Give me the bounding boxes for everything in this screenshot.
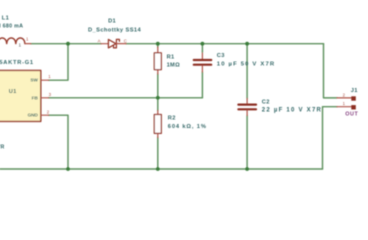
junction bottom rail / GND	[66, 167, 70, 171]
junction bottom rail / R2	[156, 167, 160, 171]
wire R1 top stub	[157, 44, 159, 47]
svg-text:L1: L1	[2, 16, 9, 22]
U1 pin name FB	[32, 95, 39, 100]
U1 reference label	[9, 89, 17, 95]
J1 pin 2 number	[343, 92, 346, 97]
inductor L1	[0, 38, 31, 44]
U1 pin 2 GND	[41, 114, 49, 116]
U1 pin name SW	[30, 78, 38, 83]
J1 pin 1 number	[343, 101, 346, 106]
junction top rail / C3	[201, 42, 205, 46]
wire R1 bottom stub	[157, 74, 159, 98]
svg-text:U1: U1	[9, 89, 17, 95]
U1 pin 1 SW	[41, 79, 49, 81]
R1 reference label	[167, 55, 175, 61]
svg-text:22 µF 10 V X7R: 22 µF 10 V X7R	[262, 108, 322, 114]
wire C2 riser	[246, 44, 248, 99]
svg-text:4.7 µH 680 mA: 4.7 µH 680 mA	[0, 23, 23, 29]
J1 reference label	[351, 88, 358, 94]
wire top rail left (L1 to D1 anode)	[31, 43, 101, 45]
wire J1 pin1 drop	[323, 107, 338, 169]
L1 pin number 1 (dark)	[19, 42, 22, 47]
wire GND riser	[49, 115, 68, 169]
D1 pin name A	[98, 38, 101, 43]
svg-text:A: A	[98, 38, 101, 43]
svg-text:OUT: OUT	[345, 112, 358, 118]
svg-text:R2: R2	[168, 115, 176, 121]
svg-text:FB: FB	[32, 95, 39, 100]
svg-text:X7R: X7R	[0, 144, 5, 150]
U1 value label (part number)	[0, 60, 34, 66]
wire top rail right (D1 cathode to J1 corner)	[126, 43, 324, 45]
D1 pin name C	[124, 38, 127, 43]
svg-text:604 kΩ, 1%: 604 kΩ, 1%	[168, 124, 207, 130]
wire C3 bottom drop	[201, 72, 203, 98]
wire J1 pin2 riser	[324, 44, 338, 98]
D1 reference label	[108, 19, 116, 25]
svg-text:5AKTR-G1: 5AKTR-G1	[0, 60, 34, 66]
L1 pin number 1 (red)	[26, 36, 29, 41]
resistor R1	[154, 47, 161, 74]
svg-text:C3: C3	[217, 53, 225, 59]
R2 reference label	[168, 115, 176, 121]
wire C2 drop	[246, 116, 248, 170]
L1 value label	[0, 23, 23, 29]
wire R2 bottom stub	[157, 138, 159, 170]
svg-text:R1: R1	[167, 55, 175, 61]
resistor R2	[154, 111, 161, 138]
wire R2 top stub	[157, 98, 159, 111]
L1 reference label	[2, 16, 9, 22]
svg-text:D1: D1	[108, 19, 116, 25]
junction top rail / SW	[66, 42, 70, 46]
svg-text:D_Schottky SS14: D_Schottky SS14	[88, 28, 141, 34]
svg-text:SW: SW	[30, 78, 38, 83]
U1 pin 3 FB	[41, 97, 49, 99]
R2 value label	[168, 124, 207, 130]
wire FB net	[49, 97, 203, 99]
label OUT	[345, 112, 358, 118]
connector J1 pin 2	[337, 96, 356, 100]
junction FB node	[156, 96, 160, 100]
IC U1 body	[0, 70, 41, 121]
U1 pin 1 number	[48, 74, 51, 79]
junction bottom rail / C2	[245, 167, 249, 171]
C3 value label	[217, 62, 276, 68]
junction top rail / R1	[156, 42, 160, 46]
label X7R tail (C1 off-screen)	[0, 144, 5, 150]
U1 pin name GND	[28, 113, 39, 118]
svg-text:J1: J1	[351, 88, 358, 94]
C2 value label	[262, 108, 322, 114]
junction top rail / C2	[245, 42, 249, 46]
wire SW riser	[49, 44, 68, 80]
svg-text:C2: C2	[262, 100, 270, 106]
C3 reference label	[217, 53, 225, 59]
diode D1	[101, 39, 126, 48]
C2 reference label	[262, 100, 270, 106]
R1 value label	[167, 63, 181, 69]
svg-text:C: C	[124, 38, 127, 43]
U1 pin 2 number	[47, 109, 50, 114]
capacitor C3	[194, 44, 211, 72]
capacitor C2	[238, 99, 256, 116]
U1 pin 3 number	[49, 92, 52, 97]
svg-text:10 µF 50 V X7R: 10 µF 50 V X7R	[217, 62, 276, 68]
wire bottom rail	[0, 168, 323, 170]
svg-text:1MΩ: 1MΩ	[167, 63, 181, 69]
svg-text:GND: GND	[28, 113, 39, 118]
D1 value label	[88, 28, 141, 34]
connector J1 pin 1	[337, 105, 356, 109]
